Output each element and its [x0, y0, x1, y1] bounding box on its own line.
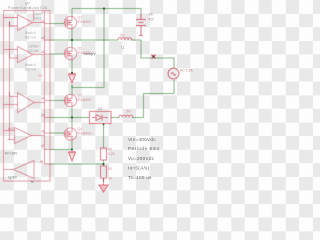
- label Q2: [78, 47, 93, 56]
- svg-text:Vin: Vin: [149, 13, 154, 17]
- op-amp A4: [4, 128, 45, 144]
- svg-text:U2: U2: [98, 107, 102, 111]
- op-amp A1 input wires: [4, 18, 18, 27]
- transistor Q2: [64, 47, 77, 60]
- wire vin label stub: [33, 11, 35, 21]
- inductor L2: [119, 115, 133, 117]
- node label Vin: [34, 12, 43, 20]
- op-amp A2: [4, 47, 45, 63]
- label V2: [180, 69, 193, 73]
- value text N: [5, 152, 18, 156]
- wire jog: [72, 9, 104, 88]
- op-amp A5: [4, 161, 35, 179]
- inductor L1: [118, 38, 132, 40]
- svg-text:out: out: [38, 74, 43, 78]
- wire feedback: [50, 163, 104, 165]
- label V1: [149, 13, 155, 22]
- svg-text:5m: 5m: [126, 110, 131, 114]
- svg-text:Rq=1-0: Rq=1-0: [25, 68, 36, 72]
- U1 inner bus wire: [44, 11, 46, 164]
- pin label fs: [31, 180, 34, 184]
- wire divider: [103, 124, 105, 183]
- svg-text:Iq=60: Iq=60: [8, 176, 17, 180]
- svg-text:Q2: Q2: [78, 47, 83, 51]
- label L2: [126, 110, 131, 114]
- svg-text:AVG: AVG: [8, 127, 15, 131]
- svg-text:5m: 5m: [120, 34, 125, 38]
- svg-text:Vin=400Vdc: Vin=400Vdc: [128, 137, 156, 142]
- label R2: [108, 167, 112, 181]
- value text A2: [25, 45, 39, 72]
- diode D1: [69, 74, 76, 84]
- svg-text:Rq=1-0: Rq=1-0: [25, 36, 36, 40]
- value text Iq: [8, 176, 17, 180]
- svg-text:1/2-Vin: 1/2-Vin: [28, 49, 39, 53]
- probe marker: [152, 55, 156, 59]
- diode D2: [69, 152, 76, 162]
- svg-text:Rout=0: Rout=0: [25, 31, 36, 35]
- svg-text:o3: o3: [41, 50, 45, 54]
- svg-text:IRLI640G: IRLI640G: [78, 132, 93, 136]
- value text A1: [25, 31, 36, 40]
- wire U2 row: [50, 117, 89, 119]
- wire gate Q3: [50, 100, 64, 102]
- op-amp block U1 outline: [4, 11, 51, 182]
- source V2 circle: [168, 68, 179, 79]
- node label avg: [8, 127, 15, 131]
- svg-text:o4: o4: [41, 97, 45, 101]
- svg-text:L1: L1: [121, 46, 125, 50]
- wire L1 row: [50, 39, 141, 41]
- svg-text:Periode 5ms: Periode 5ms: [128, 146, 160, 151]
- wire gate Q2: [50, 53, 64, 55]
- pin label out2: [38, 74, 43, 78]
- resistor R2: [101, 166, 107, 178]
- svg-text:400: 400: [149, 18, 155, 22]
- svg-text:Io=5(A/s): Io=5(A/s): [128, 165, 150, 170]
- label R1: [108, 148, 115, 157]
- wire drain bus: [71, 9, 73, 151]
- svg-text:Q3: Q3: [78, 94, 83, 98]
- svg-text:R2: R2: [108, 167, 112, 171]
- U1 reference label: [8, 2, 47, 10]
- U1 pin stubs: [45, 24, 51, 165]
- junction dots: [71, 7, 105, 165]
- svg-text:PowerGainBlockTO8: PowerGainBlockTO8: [8, 6, 47, 10]
- svg-text:o6: o6: [41, 130, 45, 134]
- wire Q4 source: [50, 149, 72, 151]
- net label ramp: [84, 52, 96, 56]
- svg-text:Vo=200Vdc: Vo=200Vdc: [128, 156, 155, 161]
- battery V1: [136, 14, 146, 36]
- svg-text:Ts=100 us: Ts=100 us: [128, 175, 152, 180]
- wire U2 to L2: [111, 117, 119, 119]
- label Q4: [78, 127, 93, 136]
- ground: [99, 178, 108, 192]
- label Q3: [78, 94, 93, 103]
- svg-text:R5: R5: [108, 148, 112, 152]
- transistor Q3: [64, 94, 77, 107]
- wire gate Q1: [50, 23, 64, 25]
- op-amp A1: [18, 15, 45, 31]
- svg-text:Q4: Q4: [78, 127, 83, 131]
- input rail wire: [9, 22, 11, 140]
- svg-text:Vin-1: Vin-1: [34, 17, 42, 21]
- svg-text:AC 1.5A: AC 1.5A: [180, 69, 193, 73]
- svg-text:1/2Vin+: 1/2Vin+: [28, 45, 39, 49]
- svg-text:IRLI640G: IRLI640G: [78, 98, 93, 102]
- svg-text:IRLI640G: IRLI640G: [78, 20, 93, 24]
- op-amp A3: [4, 92, 45, 113]
- svg-text:5k: 5k: [109, 177, 113, 181]
- svg-text:0.25: 0.25: [108, 152, 115, 156]
- svg-text:IN: IN: [40, 160, 44, 164]
- transistor Q4: [64, 128, 77, 141]
- svg-text:o5: o5: [41, 114, 45, 118]
- svg-text:o2: o2: [41, 36, 45, 40]
- svg-text:N=+15V: N=+15V: [5, 152, 18, 156]
- svg-text:Rout=0: Rout=0: [25, 63, 36, 67]
- rectifier U2: [90, 112, 112, 124]
- transistor Q1: [64, 16, 77, 29]
- svg-text:o7: o7: [41, 144, 45, 148]
- svg-text:IRLI640G: IRLI640G: [78, 51, 93, 55]
- annotation text block: [128, 137, 160, 180]
- U1 pin names: [40, 20, 45, 165]
- label U2: [98, 107, 102, 111]
- wire gate Q4: [50, 132, 64, 134]
- svg-text:Q1: Q1: [78, 16, 83, 20]
- wire top bus: [72, 9, 141, 15]
- svg-text:fs: fs: [31, 180, 34, 184]
- wire source loop: [132, 40, 174, 118]
- svg-text:Vin+0: Vin+0: [34, 12, 43, 16]
- resistor R1: [101, 148, 107, 160]
- label L1: [120, 34, 125, 38]
- label Q1: [78, 16, 93, 25]
